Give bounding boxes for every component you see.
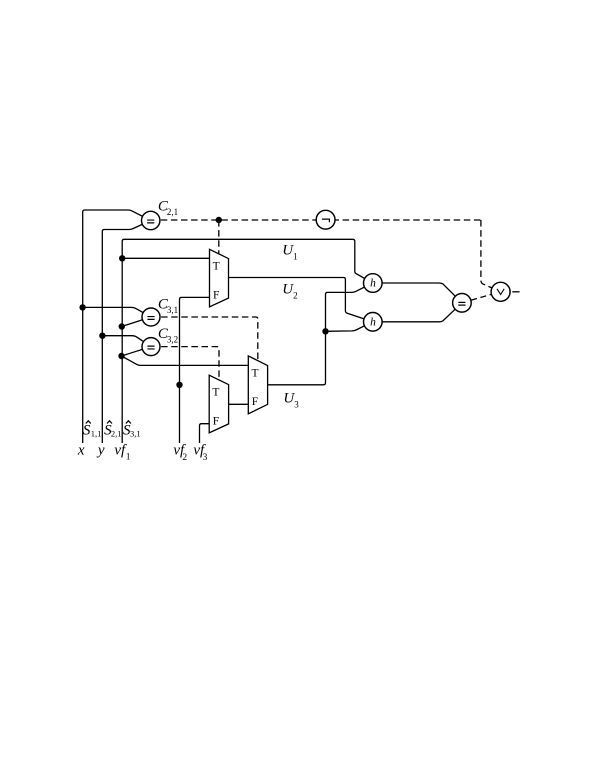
wire input x vertical and bend into C2,1 [83, 210, 151, 443]
wire y into C3,2 [102, 336, 151, 347]
svg-text:1,1: 1,1 [91, 428, 102, 438]
wire input y vertical and bend into C2,1 [102, 221, 150, 444]
svg-text:T: T [213, 261, 220, 273]
wire vf1 into C3,2 [122, 347, 152, 356]
svg-text:2: 2 [182, 453, 187, 463]
svg-text:2: 2 [293, 290, 298, 300]
final comparator = circle [453, 294, 472, 313]
wire h2 output to final = [373, 303, 462, 322]
svg-text:3,1: 3,1 [167, 305, 178, 315]
junction dot x / C3,1 [79, 304, 85, 310]
label OR symbol [497, 289, 504, 295]
svg-text:T: T [251, 367, 258, 379]
svg-text:F: F [252, 396, 258, 408]
function h1 circle [364, 274, 383, 293]
comparator C3,1 circle [142, 308, 160, 326]
svg-text:3,1: 3,1 [130, 428, 141, 438]
svg-text:F: F [213, 416, 219, 428]
wire input vf1 vertical and bend into U1 wire [122, 239, 372, 443]
junction dot vf2 / mux2 T [176, 382, 182, 388]
junction dot vf1 / mux1 T [119, 255, 125, 261]
dashed control wire C3,1 to mux3 select [151, 317, 258, 362]
dashed control wire C2,1 output across top [151, 219, 481, 221]
dashed control wire down to OR gate [481, 220, 501, 292]
wire vf1 junction to mux3 T input [122, 356, 251, 365]
svg-text:3: 3 [203, 453, 208, 463]
svg-text:1: 1 [126, 453, 131, 463]
label = inside C3,2 [147, 346, 154, 349]
dashed select wire for mux1 [218, 220, 220, 256]
wire mux3 output U3 up to h circles [267, 283, 373, 385]
svg-text:3: 3 [294, 399, 299, 409]
multiplexer mux2 [209, 375, 228, 433]
svg-text:h: h [370, 278, 376, 290]
wire h1 output to final = [373, 283, 462, 303]
comparator C2,1 circle [142, 211, 160, 229]
label not symbol [322, 219, 330, 222]
svg-text:F: F [213, 290, 219, 302]
svg-text:2,1: 2,1 [111, 428, 122, 438]
svg-text:h: h [370, 316, 376, 328]
wire x into C3,1 [83, 307, 151, 317]
label = inside C3,1 [147, 317, 154, 320]
dashed output stub after OR [512, 291, 519, 293]
junction dot U3 / h2 [322, 328, 328, 334]
OR gate circle [491, 282, 510, 301]
svg-text:S: S [83, 423, 91, 439]
multiplexer mux3 [248, 356, 267, 414]
svg-text:2,1: 2,1 [167, 207, 178, 217]
comparator C3,2 circle [142, 338, 160, 356]
function h2 circle [364, 313, 383, 332]
junction dot on dashed control line [216, 217, 222, 223]
junction dot vf1 / C3,2 / mux3 T [118, 353, 124, 359]
label = inside C2,1 [147, 220, 154, 223]
negation gate circle [316, 210, 335, 229]
wire mux1 T input from vf1 [122, 257, 211, 259]
svg-text:3,2: 3,2 [167, 335, 178, 345]
junction dot y / C3,2 [99, 333, 105, 339]
wire junction U3 to h2 lower input [326, 322, 373, 332]
multiplexer mux1 [210, 249, 229, 307]
wire vf1 into C3,1 [122, 317, 151, 327]
dashed control wire C3,2 to mux2 select [151, 347, 219, 381]
svg-text:x: x [77, 443, 85, 459]
dashed wire final = to OR [462, 292, 501, 303]
label = inside final comparator [458, 302, 465, 305]
wire mux1 output U2 to h2 [228, 278, 373, 322]
svg-text:T: T [212, 387, 219, 399]
wire mux2 output to mux3 F input [228, 403, 250, 405]
wire input vf2 vertical and bend into mux1 F input [180, 297, 212, 443]
svg-text:y: y [96, 443, 105, 459]
svg-text:1: 1 [293, 251, 298, 261]
junction dot vf1 / C3,1 [119, 323, 125, 329]
wire input vf3 vertical and bend into mux2 F input [200, 424, 212, 443]
